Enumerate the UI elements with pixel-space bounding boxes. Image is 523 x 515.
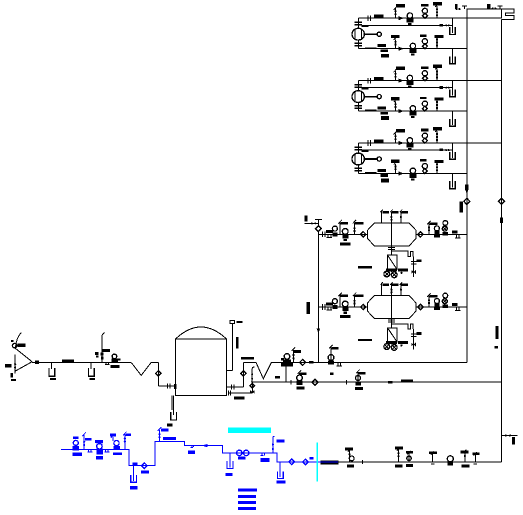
wire into tank	[158, 384, 175, 389]
tank bottom drain funnel	[172, 395, 173, 415]
compressor train 2	[352, 65, 501, 127]
tank shell	[176, 339, 227, 395]
blue valve cluster mid	[95, 440, 103, 443]
label bar suction header	[459, 202, 463, 213]
blue flow arrow	[202, 444, 208, 447]
blue supports 1	[87, 450, 92, 452]
blue blob and diamond on low leg	[133, 462, 138, 465]
blue inlet flange	[73, 437, 78, 440]
cyan highlight bar	[228, 428, 271, 433]
tank dome	[176, 327, 227, 339]
blue valve cluster right	[110, 433, 116, 436]
tank vent riser	[227, 324, 233, 371]
diamond valve vessel feed	[316, 226, 322, 232]
header box top right	[467, 9, 502, 18]
drain assembly below tank outlet	[228, 382, 252, 395]
label blob relief line	[241, 357, 254, 360]
funnel V left of tank	[131, 362, 158, 375]
riser to relief line	[242, 362, 244, 387]
control valve flare header	[112, 354, 117, 359]
diamond valve tank outlet	[241, 371, 246, 376]
blue supports 2	[104, 450, 109, 452]
compressor train 1	[352, 2, 501, 64]
blue instrument stem 3	[273, 436, 275, 453]
relief valve cluster 1	[284, 354, 290, 360]
blue support mark 2	[261, 453, 265, 456]
blue utility main line	[61, 442, 338, 466]
instrument stem flare header	[102, 333, 104, 363]
drain funnel flare header 1	[51, 362, 53, 369]
blue instrument stem 2	[123, 432, 126, 450]
flow arrow vessel feed vertical	[317, 328, 321, 333]
flow arrow down suction header	[465, 189, 469, 194]
blue drain funnel 2	[229, 453, 231, 468]
diamond valve suction header	[464, 198, 470, 204]
diamond valve tank inlet	[156, 371, 161, 376]
label bar vessel 2 inlet	[307, 302, 310, 314]
blue label blob upper leg	[163, 437, 176, 440]
label bars discharge header	[496, 326, 499, 339]
drop to flare subheader	[285, 366, 287, 382]
vent stems on header	[462, 6, 467, 9]
relief valve cluster 2	[329, 345, 332, 363]
valve cluster subheader 1	[297, 375, 303, 381]
vent tee above vessel line	[315, 220, 322, 226]
wire relief header with funnel	[243, 362, 466, 378]
separator vessel V2	[318, 282, 466, 350]
suction header vertical	[466, 18, 468, 362]
compressor train 3	[352, 127, 501, 189]
wire flare subheader lower	[251, 381, 502, 383]
valve cluster bottom line f	[474, 452, 477, 462]
branch tap discharge header	[501, 435, 517, 437]
blue diamond valves right	[289, 459, 295, 465]
corner down to tank inlet	[157, 362, 159, 386]
valve cluster bottom line c	[407, 451, 410, 462]
drain funnel flare header 2	[90, 362, 92, 369]
blue stem on upper leg	[158, 427, 161, 441]
diamond valve discharge header	[498, 198, 504, 204]
blue support mark	[191, 446, 194, 448]
wire flare header	[32, 361, 131, 363]
valve cluster bottom line a	[348, 448, 351, 462]
blue instrument stem 1	[82, 432, 85, 449]
bottom black drain line	[338, 461, 501, 463]
cyan vertical line	[316, 443, 318, 482]
blue drain funnel 1	[132, 466, 134, 481]
blue drain funnel 3	[279, 462, 281, 477]
label blobs subheader	[388, 381, 392, 384]
branch wire to vent	[305, 222, 319, 224]
inline pump bottom line	[447, 456, 453, 462]
blue ball valve pair	[237, 450, 242, 455]
valve cluster bottom line d	[431, 451, 434, 462]
exchanger coil top right	[501, 9, 514, 19]
valve cluster subheader 2	[356, 370, 359, 383]
blue gauge cluster 1	[73, 440, 78, 445]
separator vessel V1	[318, 210, 466, 278]
tank outlet wire	[227, 385, 244, 390]
valve cluster bottom line e	[463, 450, 466, 462]
supports flare header	[105, 362, 110, 364]
label blob flare header	[62, 359, 74, 362]
label blob on black line	[320, 460, 338, 464]
flare tip far left	[15, 332, 32, 361]
blue text block bottom	[238, 489, 257, 492]
gauge on flare	[12, 343, 16, 347]
diamond valve relief header	[300, 359, 306, 365]
valve cluster bottom line b	[397, 447, 400, 462]
riser stub with elbow	[252, 367, 254, 382]
vessel feed vertical	[317, 232, 319, 363]
discharge header vertical	[500, 19, 502, 462]
diamond valve subheader	[312, 379, 318, 385]
